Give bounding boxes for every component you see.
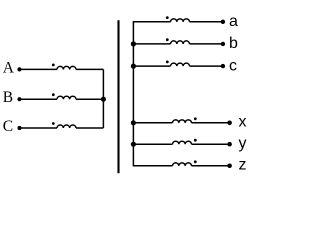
primary neutral bus wire bbox=[102, 69, 104, 128]
terminal dot x bbox=[227, 121, 232, 126]
winding c bbox=[171, 63, 190, 66]
winding C bbox=[57, 125, 76, 128]
svg-text:x: x bbox=[239, 114, 247, 131]
wire a to terminal bbox=[190, 21, 223, 23]
wire a from bus bbox=[133, 21, 171, 23]
wire c to terminal bbox=[190, 65, 223, 67]
wire y from bus bbox=[133, 143, 173, 145]
svg-text:B: B bbox=[3, 89, 13, 106]
svg-text:y: y bbox=[239, 135, 247, 152]
wire z from bus bbox=[133, 165, 173, 167]
wire z to terminal bbox=[192, 165, 230, 167]
wire x to terminal bbox=[192, 122, 230, 124]
wire b from bus bbox=[133, 43, 171, 45]
terminal dot y bbox=[227, 142, 232, 147]
terminal dot A bbox=[17, 67, 21, 71]
terminal dot c bbox=[221, 64, 225, 68]
primary neutral junction bbox=[101, 97, 106, 102]
polarity dot winding c bbox=[166, 61, 169, 64]
svg-text:b: b bbox=[229, 35, 238, 52]
wire B to bus bbox=[76, 98, 103, 100]
polarity dot winding z bbox=[194, 160, 197, 163]
winding y bbox=[173, 141, 192, 144]
junction x on bus bbox=[131, 120, 136, 125]
polarity dot winding y bbox=[194, 139, 197, 142]
terminal dot b bbox=[221, 42, 225, 46]
polarity dot winding B bbox=[52, 93, 55, 96]
wire C bbox=[20, 127, 58, 129]
wire b to terminal bbox=[190, 43, 223, 45]
svg-text:A: A bbox=[3, 60, 15, 77]
winding A bbox=[57, 66, 76, 69]
winding B bbox=[57, 96, 76, 99]
winding z bbox=[173, 163, 192, 166]
polarity dot winding a bbox=[166, 16, 169, 19]
polarity dot winding C bbox=[52, 122, 55, 125]
wire c from bus bbox=[133, 65, 171, 67]
wire B bbox=[20, 98, 58, 100]
terminal dot z bbox=[227, 164, 232, 169]
svg-text:c: c bbox=[229, 57, 237, 74]
svg-text:C: C bbox=[3, 118, 13, 135]
svg-text:a: a bbox=[229, 13, 238, 30]
polarity dot winding b bbox=[166, 38, 169, 41]
transformer core bar bbox=[117, 20, 119, 173]
svg-text:z: z bbox=[239, 157, 247, 174]
terminal dot C bbox=[17, 126, 21, 130]
polarity dot winding A bbox=[52, 64, 55, 67]
wire y to terminal bbox=[192, 143, 230, 145]
wire C to bus bbox=[76, 127, 103, 129]
terminal dot a bbox=[221, 20, 225, 24]
wire x from bus bbox=[133, 122, 173, 124]
wire A to bus bbox=[76, 68, 103, 70]
junction c on bus bbox=[131, 64, 136, 69]
wire A bbox=[20, 68, 58, 70]
junction b on bus bbox=[131, 41, 136, 46]
winding x bbox=[173, 120, 192, 123]
winding a bbox=[171, 19, 190, 22]
terminal dot B bbox=[17, 97, 21, 101]
polarity dot winding x bbox=[194, 117, 197, 120]
secondary bus wire bbox=[132, 22, 134, 166]
winding b bbox=[171, 41, 190, 44]
junction y on bus bbox=[131, 142, 136, 147]
